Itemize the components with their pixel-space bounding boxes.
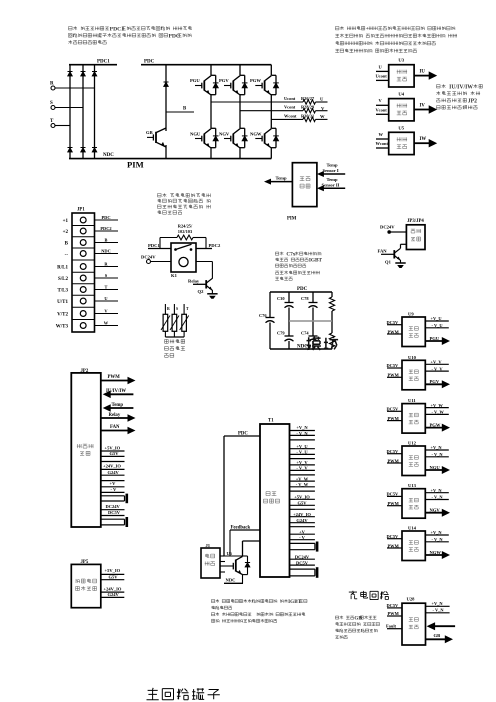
rectifier leg 3 wire — [94, 65, 96, 159]
inverter leg U wire — [210, 65, 212, 159]
driver U28 brake — [386, 597, 455, 646]
JP2 cap jumper a — [101, 494, 127, 504]
svg-text:U9: U9 — [408, 312, 414, 317]
svg-text:C79: C79 — [277, 331, 285, 336]
JP2 +V wire — [101, 481, 125, 487]
connector JP2 control-board interface — [71, 369, 101, 527]
svg-text:- V_N: - V_N — [433, 608, 445, 613]
svg-text:G5V: G5V — [109, 574, 119, 579]
svg-text:PDC1: PDC1 — [97, 60, 110, 65]
svg-text:- V: - V — [299, 535, 306, 540]
svg-text:DC5V: DC5V — [387, 406, 400, 411]
net PDC cap-bank rail — [270, 287, 332, 292]
JP2 DC24V wire — [101, 504, 125, 510]
svg-text:+V_U: +V_U — [296, 444, 308, 449]
svg-text:PIM: PIM — [287, 216, 297, 221]
wire PDC into T1 — [224, 431, 260, 556]
signal FAN out — [101, 425, 136, 434]
terminal S — [50, 101, 55, 110]
wire Temp out left — [264, 176, 292, 185]
svg-text:+24V_IO: +24V_IO — [104, 587, 122, 592]
resistor R30/31 — [284, 113, 316, 121]
terminal DC24V fan — [380, 224, 406, 234]
svg-text:DC5V: DC5V — [387, 603, 400, 608]
svg-text:U5: U5 — [398, 125, 404, 130]
IGBT PGV — [219, 75, 248, 95]
svg-text:+2: +2 — [63, 230, 69, 235]
svg-text:W: W — [379, 132, 384, 137]
svg-text:PGV: PGV — [430, 379, 440, 384]
svg-text:Sensor I: Sensor I — [323, 168, 339, 173]
svg-text:NGU: NGU — [430, 465, 441, 470]
terminal T — [50, 119, 55, 128]
svg-text:PDC1: PDC1 — [110, 26, 125, 32]
svg-text:PDC1: PDC1 — [148, 243, 160, 248]
wire collector node — [224, 555, 243, 557]
svg-text:Vcont: Vcont — [376, 108, 388, 113]
JP5 +24V_IO wire — [101, 587, 125, 593]
svg-text:U6: U6 — [227, 551, 233, 556]
JP1 right pin wires — [95, 215, 119, 326]
svg-text:Temp: Temp — [276, 176, 288, 181]
svg-text:Temp: Temp — [112, 403, 124, 408]
JP2 cap jumper b — [101, 517, 127, 527]
svg-text:DC5V: DC5V — [387, 492, 400, 497]
svg-text:- V: - V — [111, 487, 118, 492]
transistor Q2 — [188, 278, 212, 294]
svg-text:U10: U10 — [408, 355, 417, 360]
svg-text:U12: U12 — [408, 441, 417, 446]
svg-text:+V_V: +V_V — [296, 460, 308, 465]
transistor U6 switching — [220, 551, 250, 575]
T1 secondary output wires — [290, 425, 318, 578]
svg-text:PWM: PWM — [388, 611, 400, 616]
svg-text:+V: +V — [299, 530, 306, 535]
svg-text:- V_N: - V_N — [296, 431, 308, 436]
driver U13 — [387, 483, 451, 518]
svg-text:+: + — [366, 26, 369, 32]
svg-text:NDC: NDC — [226, 577, 236, 582]
watermark — [307, 337, 339, 350]
note: top-left charging-path description (3 lines) — [68, 26, 191, 44]
wire Temp Sensor I — [317, 163, 345, 178]
IGBT NGW — [250, 128, 279, 148]
JP2 G5V wire — [101, 451, 125, 456]
JP5 G24V wire — [101, 592, 125, 597]
svg-text:U: U — [320, 97, 324, 102]
label PIM under temp block — [287, 216, 297, 221]
note: bus voltage sensing (2 lines) — [211, 612, 305, 622]
signal PWM out — [101, 375, 136, 384]
svg-text:PGW: PGW — [250, 78, 261, 83]
svg-text:U: U — [379, 64, 383, 69]
svg-text:S: S — [176, 307, 178, 311]
signal Temp in — [103, 403, 134, 412]
JP2 DC5V wire — [101, 510, 125, 516]
label charging-circuit heading — [349, 591, 389, 600]
svg-text:PGU: PGU — [430, 336, 440, 341]
capacitor C78 — [301, 292, 318, 321]
svg-text:PWM: PWM — [108, 375, 121, 380]
capacitor C79 — [277, 321, 294, 349]
svg-text:Ucont: Ucont — [376, 74, 388, 79]
transistor GB — [146, 128, 166, 147]
JP5 +5V_IO wire — [101, 568, 125, 574]
JP2 spare wire b — [101, 480, 125, 482]
driver U10 — [387, 355, 451, 390]
IGBT PGW — [250, 75, 279, 95]
rectifier leg 2 wire — [82, 65, 84, 159]
svg-text:B: B — [65, 241, 69, 246]
op-amp U5 linear optocoupler — [376, 125, 438, 154]
ground Q2 — [207, 294, 217, 299]
transistor Q1 — [378, 248, 401, 264]
svg-text:C30: C30 — [277, 296, 285, 301]
svg-text:PGU: PGU — [190, 78, 200, 83]
note: brake-drive protection (4 lines) — [335, 615, 379, 638]
label PIM — [127, 160, 144, 170]
note: top-right current-sampling description (4 lines) — [335, 26, 457, 52]
svg-text:JP3/JP4: JP3/JP4 — [407, 219, 424, 224]
svg-text:NGV: NGV — [219, 132, 230, 137]
svg-text:B: B — [105, 237, 108, 242]
svg-text:IGBT: IGBT — [309, 258, 323, 264]
terminal W label — [320, 114, 325, 119]
svg-text:FAN: FAN — [110, 425, 120, 430]
svg-text:R24/25/: R24/25/ — [178, 223, 193, 228]
varistor RV3 — [180, 304, 189, 337]
JP2 G24V wire — [101, 470, 125, 475]
svg-text:NGV: NGV — [430, 508, 441, 513]
svg-text:+5V_IO: +5V_IO — [105, 568, 121, 573]
svg-text:DC24V: DC24V — [106, 504, 121, 509]
svg-text:+24V_IO: +24V_IO — [293, 512, 311, 517]
svg-text:S/L2: S/L2 — [58, 277, 69, 282]
svg-text:PDC2: PDC2 — [209, 243, 221, 248]
note: switching supply outputs (2 lines) — [211, 599, 307, 609]
svg-text:DC5V: DC5V — [387, 320, 400, 325]
op-amp U3 linear optocoupler — [376, 58, 438, 87]
svg-text:S: S — [105, 273, 108, 278]
svg-text:+24V_IO: +24V_IO — [103, 464, 121, 469]
signal IU/IV/IW in — [103, 389, 134, 398]
svg-text:U14: U14 — [408, 526, 417, 531]
ground Q1 — [395, 263, 405, 268]
JP2 +24V_IO wire — [101, 464, 125, 470]
svg-text:B: B — [183, 107, 187, 112]
wire PDC2 from relay — [193, 238, 221, 249]
svg-text:U4: U4 — [398, 92, 404, 97]
resistor R28/29 — [284, 105, 316, 113]
rectifier diode D6 bottom — [92, 148, 97, 153]
wire T phase — [55, 125, 70, 127]
svg-text:Wcont: Wcont — [284, 113, 297, 118]
svg-text:NDC: NDC — [101, 248, 111, 253]
svg-text:--: -- — [65, 252, 69, 257]
svg-text:G5V: G5V — [298, 501, 308, 506]
connector JP5 isolated supply output — [71, 560, 101, 608]
brake diode — [164, 82, 169, 87]
brake leg wire — [165, 65, 167, 159]
svg-text:PGV: PGV — [219, 78, 229, 83]
svg-text:U13: U13 — [408, 483, 417, 488]
svg-text:G24V: G24V — [296, 518, 308, 523]
rectifier diode D4 bottom — [68, 148, 73, 153]
wire PDC1 to relay — [148, 238, 177, 249]
wire cap midpoint (gray) — [289, 320, 332, 322]
svg-text:U/T1: U/T1 — [57, 300, 68, 305]
svg-text:PDC2: PDC2 — [100, 226, 111, 231]
svg-text:NGW: NGW — [430, 550, 442, 555]
svg-text:C7x: C7x — [286, 252, 295, 258]
JP5 G5V wire — [101, 574, 125, 579]
note: charging relay description (4 lines) — [158, 193, 211, 214]
svg-text:IV: IV — [420, 103, 426, 108]
svg-text:IW: IW — [420, 137, 427, 142]
IGBT NGU — [190, 128, 219, 148]
rectifier diode D2 top — [81, 72, 86, 77]
svg-text:G24V: G24V — [108, 470, 120, 475]
svg-text:+V_W: +V_W — [296, 476, 309, 481]
svg-text:GB: GB — [354, 615, 362, 621]
driver U12 — [387, 441, 451, 476]
svg-text:+1: +1 — [63, 219, 69, 224]
node B wire — [166, 107, 194, 113]
svg-text:PDC: PDC — [168, 33, 180, 39]
svg-text:NGU: NGU — [190, 132, 201, 137]
svg-text:PGW: PGW — [430, 422, 441, 427]
wire phase V output — [240, 110, 328, 112]
svg-text:PDC: PDC — [144, 60, 155, 65]
svg-text:Q1: Q1 — [385, 259, 392, 264]
block temperature-sense (PIM) — [292, 163, 317, 207]
svg-text:IGBT: IGBT — [288, 599, 301, 605]
svg-text:Temp: Temp — [327, 163, 339, 168]
svg-text:GB: GB — [434, 633, 441, 638]
net PDC1 rail — [69, 60, 117, 65]
svg-text:U3: U3 — [398, 58, 404, 63]
capacitor C30 — [277, 292, 294, 321]
net NDC cap-bank rail — [270, 345, 332, 350]
inverter leg V wire — [239, 65, 241, 159]
JP2 -V wire — [101, 487, 125, 492]
connector JP1 — [72, 208, 95, 333]
capacitor C74 — [301, 321, 318, 349]
signal Relay out — [101, 413, 136, 422]
wire relay coil to Q2 — [196, 262, 212, 279]
wire NDC under U6 — [224, 575, 243, 584]
varistor RV1 — [161, 304, 170, 337]
svg-text:C78: C78 — [301, 296, 309, 301]
svg-text:NDC: NDC — [103, 153, 114, 158]
svg-text:U11: U11 — [408, 398, 416, 403]
block J1 power-supply controller — [201, 543, 220, 578]
wire S phase — [55, 107, 83, 109]
note: varistor purpose (3 lines) — [164, 339, 185, 357]
label main-circuit terminals heading — [147, 688, 220, 700]
resistor R26/27 — [284, 96, 316, 104]
svg-text:DC5V: DC5V — [387, 534, 400, 539]
varistor RV2 — [170, 304, 179, 337]
IGBT PGU — [190, 75, 219, 95]
svg-text:Sensor II: Sensor II — [322, 183, 340, 188]
svg-text:DC5V: DC5V — [108, 510, 121, 515]
wire fan collector — [401, 244, 407, 248]
svg-text:+V_N: +V_N — [296, 425, 308, 430]
terminal U label — [320, 97, 324, 102]
svg-text:+V: +V — [110, 481, 117, 486]
svg-text:PDC: PDC — [101, 215, 110, 220]
driver U14 — [387, 526, 451, 561]
terminal DC24V to relay coil — [141, 255, 171, 264]
svg-text:Ucont: Ucont — [284, 96, 296, 101]
svg-text:Vcont: Vcont — [284, 105, 296, 110]
svg-text:T: T — [105, 284, 108, 289]
note: IU/IV/IW signal description (4 lines) — [436, 84, 482, 109]
svg-text:+5V_IO: +5V_IO — [105, 445, 121, 450]
svg-text:IU: IU — [420, 69, 426, 74]
svg-text:IU/IV/IW: IU/IV/IW — [449, 84, 473, 90]
svg-text:JP2: JP2 — [468, 98, 477, 104]
svg-text:R/L1: R/L1 — [57, 265, 68, 270]
rectifier diode D5 bottom — [81, 148, 86, 153]
balance resistor upper — [329, 292, 334, 321]
svg-text:DC5V: DC5V — [387, 363, 400, 368]
svg-text:R: R — [104, 261, 108, 266]
net PDC rail — [141, 60, 271, 65]
wire Feedback — [230, 525, 260, 556]
op-amp U4 linear optocoupler — [376, 92, 438, 121]
terminal V label — [321, 106, 325, 111]
svg-text:W/T3: W/T3 — [56, 324, 69, 329]
svg-text:Temp: Temp — [327, 177, 339, 182]
svg-text:R: R — [167, 307, 170, 311]
svg-text:T: T — [186, 307, 189, 311]
svg-text:G5V: G5V — [110, 451, 120, 456]
svg-text:- V_V: - V_V — [296, 466, 308, 471]
resistor R24/25 102/103 — [177, 223, 193, 240]
balance resistor lower — [329, 321, 334, 349]
wire varistor common — [165, 336, 184, 338]
JP2 spare wire a — [101, 461, 125, 463]
svg-text:U28: U28 — [407, 597, 416, 602]
svg-text:DC24V: DC24V — [380, 224, 395, 229]
svg-text:G24V: G24V — [108, 592, 120, 597]
svg-text:V/T2: V/T2 — [57, 312, 68, 317]
driver U9 — [387, 312, 451, 347]
svg-text:T/L3: T/L3 — [57, 288, 68, 293]
svg-text:- V_U: - V_U — [296, 450, 308, 455]
svg-text:- V_W: - V_W — [296, 482, 309, 487]
svg-text:V: V — [104, 308, 108, 313]
svg-text:C74: C74 — [301, 331, 309, 336]
wire R phase — [55, 87, 95, 89]
connector JP3/JP4 fan interface — [406, 219, 425, 250]
wire phase U output — [211, 101, 328, 103]
J1 stub wires — [220, 556, 225, 572]
rectifier diode D1 top — [68, 72, 73, 77]
note: C7x film cap description (5 lines) — [275, 252, 322, 281]
svg-text:Wcont: Wcont — [376, 141, 389, 146]
svg-text:JP1: JP1 — [77, 208, 85, 213]
svg-text:Relay: Relay — [188, 278, 200, 283]
wire phase W output — [271, 118, 327, 120]
svg-text:U: U — [104, 296, 108, 301]
JP1 left pin labels — [56, 219, 69, 329]
wire Temp Sensor II — [317, 177, 345, 191]
svg-text:DC24V: DC24V — [141, 255, 156, 260]
svg-text:W: W — [104, 320, 109, 325]
svg-text:DC5V: DC5V — [296, 560, 309, 565]
svg-text:W: W — [320, 114, 325, 119]
capacitor C76 — [259, 292, 275, 349]
svg-text:PIM: PIM — [127, 160, 144, 170]
svg-text:102/103: 102/103 — [178, 229, 193, 234]
svg-text:DC24V: DC24V — [295, 555, 310, 560]
svg-text:NGW: NGW — [250, 132, 262, 137]
net NDC rail — [69, 153, 271, 158]
svg-text:V: V — [379, 98, 383, 103]
driver U11 — [387, 398, 451, 433]
svg-text:T1: T1 — [268, 419, 274, 424]
wire T1 primary return — [243, 541, 261, 556]
svg-text:DC5V: DC5V — [387, 449, 400, 454]
IGBT NGV — [219, 128, 248, 148]
JP2 +5V_IO wire — [101, 445, 125, 451]
svg-text:+5V_IO: +5V_IO — [294, 495, 310, 500]
rectifier leg 1 wire — [69, 65, 71, 159]
svg-text:K1: K1 — [171, 273, 178, 278]
inverter leg W wire — [270, 65, 272, 159]
transformer T1 high-frequency — [260, 419, 290, 578]
svg-text:GB: GB — [146, 130, 153, 135]
rectifier diode D3 top — [92, 72, 97, 77]
svg-text:FAN: FAN — [378, 249, 388, 254]
svg-text:V: V — [321, 106, 325, 111]
svg-text:Q2: Q2 — [198, 289, 205, 294]
relay K1 — [171, 243, 196, 278]
svg-text:+V_N: +V_N — [432, 601, 444, 606]
terminal R — [50, 82, 55, 91]
svg-text:Fault: Fault — [386, 624, 397, 629]
